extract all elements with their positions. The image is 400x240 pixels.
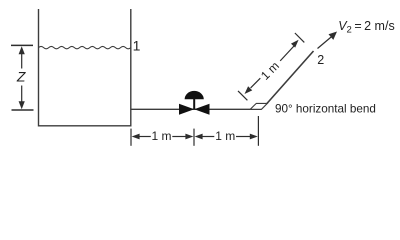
90 degree horizontal bend label bbox=[275, 102, 376, 115]
bottom dimension middle tick bbox=[193, 129, 195, 146]
node 1 label bbox=[133, 37, 141, 53]
valve V (bowtie + dome) bbox=[179, 91, 210, 115]
svg-text:V2 = 2 m/s: V2 = 2 m/s bbox=[338, 19, 395, 36]
diagonal 1 m label bbox=[258, 59, 282, 83]
V2 = 2 m/s label bbox=[338, 19, 395, 36]
diagonal 1 m dimension: lower tick bbox=[238, 91, 247, 100]
svg-text:1 m: 1 m bbox=[258, 59, 282, 83]
svg-text:Z: Z bbox=[16, 69, 26, 85]
Z dimension arrow up bbox=[19, 46, 25, 68]
svg-text:90° horizontal bend: 90° horizontal bend bbox=[275, 102, 376, 115]
svg-text:1 m: 1 m bbox=[151, 129, 171, 143]
Z dimension bottom tick bbox=[12, 109, 34, 111]
node 2 label bbox=[317, 53, 324, 67]
Z dimension arrow down bbox=[19, 86, 25, 110]
Z label bbox=[16, 69, 26, 85]
diagonal 1 m dimension: upper arrow bbox=[280, 40, 298, 61]
diagonal 1 m dimension: upper tick bbox=[295, 33, 304, 42]
Z dimension top tick bbox=[11, 44, 33, 46]
bottom dimension left tick bbox=[130, 129, 132, 146]
diagonal 1 m dimension: lower arrow bbox=[245, 78, 261, 94]
svg-text:2: 2 bbox=[317, 53, 324, 67]
svg-text:1 m: 1 m bbox=[215, 129, 235, 143]
bottom 1 m label (right) bbox=[215, 129, 235, 143]
V2 flow arrow bbox=[318, 32, 338, 49]
horizontal pipe bbox=[131, 108, 262, 110]
90-degree bend symbol (parallelogram) bbox=[250, 103, 267, 109]
bend reference tick (below bend) bbox=[257, 116, 259, 146]
svg-text:1: 1 bbox=[133, 37, 141, 53]
water surface wavy line bbox=[39, 46, 131, 48]
diagonal pipe to outlet 2 bbox=[267, 51, 314, 104]
bottom 1 m dimension (left segment) arrows bbox=[132, 134, 194, 140]
bottom 1 m dimension (right segment) arrows bbox=[195, 134, 258, 140]
tank walls bbox=[39, 9, 131, 126]
bottom 1 m label (left) bbox=[151, 129, 171, 143]
